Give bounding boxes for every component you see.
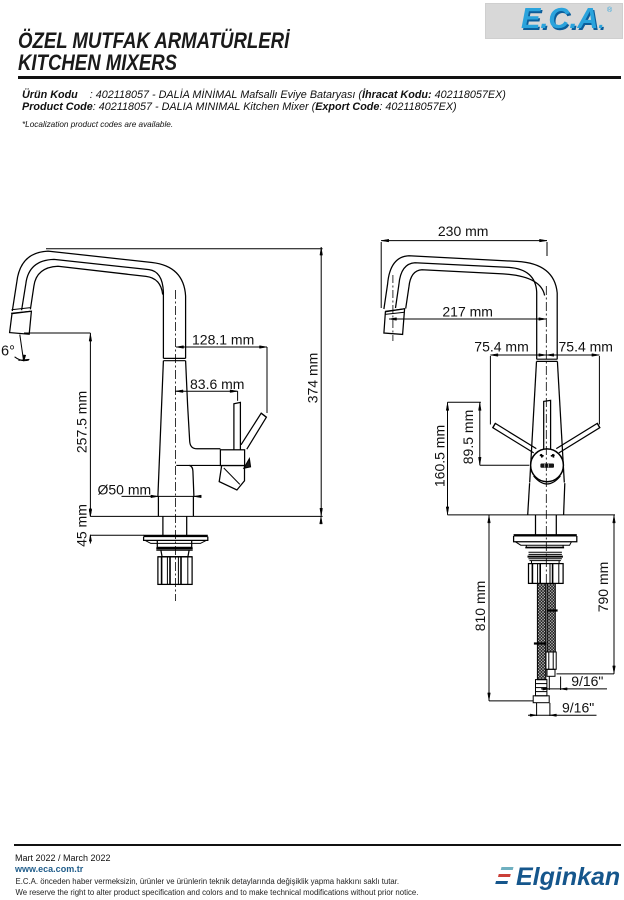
spout outer contour (front view) bbox=[384, 256, 557, 360]
mounting shank above flange (side view) bbox=[162, 516, 164, 535]
dimension 45 mm bbox=[89, 508, 91, 516]
knob hot-cold markings bbox=[540, 454, 544, 458]
spout middle contour (front view) bbox=[396, 263, 537, 359]
aerator nozzle (side view) bbox=[10, 311, 32, 334]
centerline of right faucet bbox=[545, 286, 547, 583]
lever handle swung right (front view) bbox=[556, 423, 600, 453]
escutcheon flange (side view) bbox=[144, 535, 208, 537]
wire top extension line (spout apex to 374mm dim) bbox=[46, 248, 323, 250]
svg-text:9/16": 9/16" bbox=[562, 700, 594, 716]
svg-text:45 mm: 45 mm bbox=[74, 504, 90, 547]
svg-text:128.1 mm: 128.1 mm bbox=[192, 331, 254, 347]
svg-text:83.6 mm: 83.6 mm bbox=[190, 376, 244, 392]
spout outlet wedge under housing bbox=[219, 466, 244, 490]
dimension 810 mm bbox=[488, 515, 490, 701]
swivel joint lines (front view) bbox=[537, 358, 558, 360]
footer disclaimer EN bbox=[16, 888, 419, 897]
dimension 790 mm bbox=[613, 515, 615, 674]
diameter 50 leader line bbox=[122, 495, 199, 497]
base cylinder (front view) bbox=[535, 515, 537, 535]
spout inner contour (side view) bbox=[30, 266, 162, 309]
dimension 160.5 mm bbox=[447, 402, 449, 515]
nozzle centerline bbox=[392, 275, 394, 341]
footer rule bbox=[14, 844, 621, 847]
footer website bbox=[15, 864, 83, 874]
lever handle swung left (front view) bbox=[493, 423, 537, 453]
lever motion arrowhead bbox=[244, 459, 251, 469]
aerator joint lines (front view) bbox=[385, 309, 405, 311]
centerline of left faucet bbox=[174, 290, 176, 601]
footer date bbox=[15, 853, 111, 863]
ECA logo text bbox=[523, 8, 624, 40]
cartridge housing (side view) bbox=[220, 450, 244, 466]
product code line Turkish bbox=[22, 89, 506, 101]
lever handle up-position (front view) bbox=[544, 400, 551, 452]
svg-text:230 mm: 230 mm bbox=[438, 223, 489, 239]
svg-text:75.4 mm: 75.4 mm bbox=[559, 339, 613, 355]
spout inner contour (front view) bbox=[406, 270, 545, 309]
lever handle tilted (side view) bbox=[241, 413, 266, 449]
body lower right edge bbox=[189, 465, 194, 496]
svg-text:374 mm: 374 mm bbox=[305, 353, 321, 404]
svg-text:810 mm: 810 mm bbox=[472, 581, 488, 632]
base cylinder (side view) bbox=[157, 496, 159, 516]
mounting nut knurled (front view) bbox=[529, 564, 564, 584]
body left edge (side view) bbox=[158, 361, 164, 497]
escutcheon flange (front view) bbox=[514, 534, 577, 536]
dimension 89.5 mm bbox=[479, 402, 481, 465]
45mm lower extension line bbox=[90, 534, 144, 536]
product code line English bbox=[22, 101, 457, 113]
6-degree spray axis with arrow bbox=[20, 335, 24, 360]
spout middle contour (side view) bbox=[22, 259, 164, 358]
lever handle up-position (side view) bbox=[234, 402, 241, 449]
aerator nozzle (front view) bbox=[384, 309, 405, 335]
dimension 128.1 mm bbox=[176, 346, 267, 348]
header rule bbox=[18, 76, 621, 79]
body mid horizontal line bbox=[176, 464, 244, 466]
svg-text:790 mm: 790 mm bbox=[595, 562, 611, 613]
right hose fitting hex nut bbox=[546, 652, 556, 669]
registered mark bbox=[607, 7, 612, 14]
dimension 230 mm bbox=[381, 240, 547, 242]
mixer knob circle (front view) bbox=[531, 449, 564, 482]
flange second tier (front view) bbox=[526, 545, 563, 547]
svg-text:160.5 mm: 160.5 mm bbox=[432, 425, 448, 487]
svg-text:217 mm: 217 mm bbox=[442, 303, 493, 319]
svg-text:75.4 mm: 75.4 mm bbox=[474, 339, 528, 355]
svg-text:6°: 6° bbox=[1, 344, 15, 360]
deck line (front view) bbox=[448, 514, 616, 516]
dimension 75.4 mm pair bbox=[490, 354, 599, 356]
footer disclaimer TR bbox=[16, 877, 400, 886]
dimension 257.5 mm bbox=[89, 333, 91, 516]
title Turkish bbox=[18, 30, 289, 52]
body right edge and shelf (side view) bbox=[186, 361, 221, 449]
dimension 9/16 inch right hose bbox=[548, 677, 550, 691]
Elginkan logo bbox=[495, 867, 515, 887]
spout aerator joint lines bbox=[12, 308, 31, 310]
body cone below knob (front view) bbox=[528, 483, 530, 515]
title English bbox=[18, 52, 177, 74]
flange second tier (side view) bbox=[157, 540, 191, 547]
svg-text:Ø50 mm: Ø50 mm bbox=[98, 482, 152, 498]
braided hose left bbox=[537, 584, 545, 680]
deck extension line with dim arrows bbox=[90, 515, 322, 517]
dimension 83.6 mm bbox=[176, 390, 238, 392]
flange ring stack (front view) bbox=[529, 553, 562, 555]
body cone edges (front view) bbox=[530, 361, 537, 482]
dimension 374 mm bbox=[320, 247, 322, 516]
spout outer contour (side view) bbox=[12, 251, 185, 358]
shank neck (side view) bbox=[161, 550, 189, 557]
dimension 217 mm bbox=[389, 318, 546, 320]
localization note bbox=[22, 120, 173, 129]
ECA logo box bbox=[485, 3, 623, 39]
dimension 9/16 inch left hose bbox=[536, 703, 538, 716]
svg-text:9/16": 9/16" bbox=[571, 673, 603, 689]
swivel joint lines on riser bbox=[163, 357, 185, 359]
mounting nut knurled (side view) bbox=[158, 557, 192, 585]
left hose fitting ribbed bbox=[536, 680, 547, 696]
svg-text:257.5 mm: 257.5 mm bbox=[74, 391, 90, 453]
svg-text:89.5 mm: 89.5 mm bbox=[460, 410, 476, 464]
